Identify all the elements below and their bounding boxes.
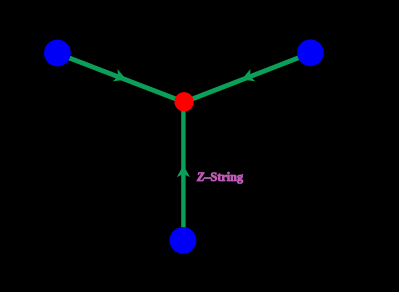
quark: top-left blue circle	[44, 40, 71, 67]
arrow on Z-string (points up toward junction)	[177, 165, 190, 177]
junction node: red dot	[174, 92, 193, 111]
arrow on right string (points toward junction)	[239, 69, 255, 86]
wire: string from top-left quark to junction	[57, 53, 184, 102]
wire: string from top-right quark to junction	[184, 53, 310, 102]
arrow on left string (points toward junction)	[113, 69, 129, 86]
quark: bottom blue circle	[170, 227, 197, 254]
wire: Z-string from bottom quark to junction	[181, 102, 185, 241]
svg-text:Z–String: Z–String	[196, 170, 243, 184]
quark: top-right blue circle	[297, 39, 324, 66]
